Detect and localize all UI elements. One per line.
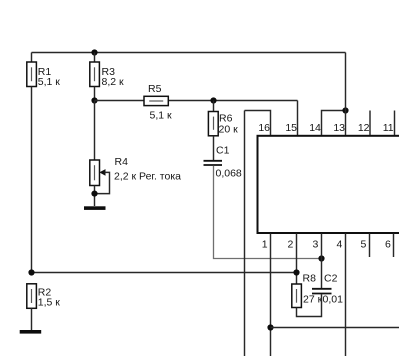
node junction R2 top — [28, 269, 34, 275]
svg-text:14: 14 — [309, 122, 321, 134]
wire horizontal R5 bus — [95, 100, 298, 102]
wire pin2 lead — [296, 234, 298, 285]
wire pin14 lead — [322, 111, 346, 136]
svg-text:11: 11 — [383, 122, 394, 134]
svg-text:2,2 к Рег. тока: 2,2 к Рег. тока — [114, 171, 181, 183]
svg-text:15: 15 — [285, 122, 297, 134]
wire R2 bottom lead — [31, 308, 33, 330]
wire R6 top lead — [213, 101, 215, 112]
svg-text:16: 16 — [258, 122, 270, 134]
wire R6 to C1 — [213, 136, 215, 160]
node junction pin3 — [318, 255, 324, 261]
svg-text:6: 6 — [385, 238, 391, 250]
svg-text:20 к: 20 к — [219, 124, 239, 136]
svg-text:R5: R5 — [148, 83, 162, 95]
svg-text:8,2 к: 8,2 к — [102, 76, 125, 88]
resistor R6 — [208, 112, 238, 136]
wire pin1 lead long — [270, 234, 272, 356]
wire R3 bottom lead — [94, 87, 96, 101]
wire pin12 stub — [369, 111, 371, 136]
wire R3 top lead — [94, 53, 96, 63]
svg-text:5,1 к: 5,1 к — [150, 109, 173, 121]
node junction top R3 — [91, 49, 97, 55]
wire C1 bottom to pin3 bus — [214, 166, 322, 259]
capacitor C1 — [204, 145, 242, 180]
ground R4 — [84, 206, 106, 210]
svg-text:R8: R8 — [303, 273, 317, 285]
svg-text:13: 13 — [333, 122, 345, 134]
svg-text:4: 4 — [336, 238, 342, 250]
node junction pin2 R8 — [293, 269, 299, 275]
svg-text:2: 2 — [287, 238, 293, 250]
wire pin13 riser to top bus — [345, 53, 347, 136]
wire R4 bottom lead — [94, 186, 96, 207]
wire R4 column — [94, 101, 96, 161]
svg-text:0,068: 0,068 — [216, 168, 242, 180]
svg-text:12: 12 — [358, 122, 370, 134]
svg-text:R4: R4 — [115, 156, 129, 168]
svg-text:27 к: 27 к — [303, 294, 323, 306]
op-amp U1 IC body — [258, 136, 399, 233]
wire pin3 lead — [321, 234, 323, 289]
resistor R8 — [292, 273, 323, 308]
wire bottom bus right — [271, 327, 399, 329]
svg-text:C2: C2 — [324, 273, 338, 285]
resistor R3 — [90, 62, 124, 88]
svg-text:1: 1 — [262, 238, 268, 250]
wire R8 C2 bottom U — [297, 294, 322, 316]
node junction pin13 — [342, 107, 348, 113]
wire pin16 connection — [245, 111, 271, 136]
wire pin15 riser — [297, 101, 299, 136]
ground R2 — [20, 330, 42, 334]
svg-text:1,5 к: 1,5 к — [38, 297, 61, 309]
wire R2 bus horizontal — [32, 272, 297, 274]
wire pin6 stub — [393, 234, 395, 258]
capacitor C2 — [312, 273, 343, 306]
node junction pin1 bottom — [267, 324, 273, 330]
svg-text:5: 5 — [361, 238, 367, 250]
svg-text:3: 3 — [312, 238, 318, 250]
wire top bus — [32, 52, 346, 54]
wire pin4 lead long — [345, 234, 347, 356]
resistor R5 — [144, 83, 172, 121]
svg-text:0,01: 0,01 — [323, 294, 344, 306]
wire R1 top lead — [31, 53, 33, 63]
svg-text:C1: C1 — [216, 145, 230, 157]
resistor R1 — [27, 62, 61, 88]
node junction R4 wiper — [91, 191, 97, 197]
node junction R6 top — [210, 97, 216, 103]
node junction R3 bottom — [91, 97, 97, 103]
wire pin5 stub — [369, 234, 371, 258]
wire pin16 riser down — [244, 111, 246, 356]
svg-text:5,1 к: 5,1 к — [38, 76, 61, 88]
wire pin11 stub — [394, 111, 396, 136]
wire left column R1 to node — [31, 87, 33, 273]
resistor R2 — [27, 284, 61, 309]
potentiometer R4 — [90, 156, 181, 194]
